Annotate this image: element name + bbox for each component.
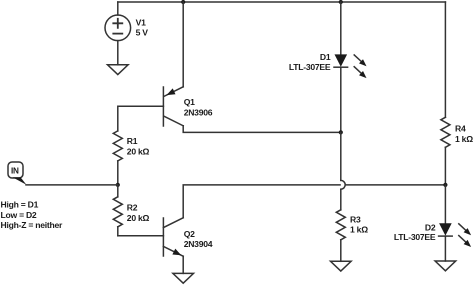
wire node down to D2	[444, 185, 446, 223]
ground below R3	[331, 261, 352, 271]
wire D1 cathode down to Q1 collector node	[340, 67, 342, 132]
wire Q1 collector to D1/R3 column	[183, 126, 341, 133]
wire hop to R3	[340, 189, 342, 210]
voltage source V1	[105, 2, 131, 65]
node junction dot Q1 collector / D1 / R3	[339, 130, 343, 134]
svg-text:D2: D2	[425, 223, 436, 233]
svg-text:Q1: Q1	[184, 97, 195, 107]
svg-text:Low = D2: Low = D2	[1, 210, 37, 220]
svg-text:20 kΩ: 20 kΩ	[127, 147, 150, 157]
ground below V1	[108, 65, 129, 75]
svg-text:High = D1: High = D1	[1, 200, 39, 210]
svg-text:LTL-307EE: LTL-307EE	[289, 62, 331, 72]
ground below D2	[435, 261, 456, 271]
wire Q2 emitter to ground	[182, 256, 184, 273]
resistor R2	[113, 185, 122, 236]
svg-text:Q2: Q2	[184, 229, 195, 239]
wire Q1 emitter to top rail	[182, 2, 184, 87]
svg-text:V1: V1	[136, 18, 146, 28]
svg-text:High-Z = neither: High-Z = neither	[1, 220, 64, 230]
svg-text:R4: R4	[455, 124, 466, 134]
annotation text block	[1, 200, 64, 231]
svg-text:1 kΩ: 1 kΩ	[350, 225, 368, 235]
ground below Q2	[173, 273, 194, 283]
wire top rail from V1 to right corner	[118, 1, 446, 3]
svg-text:R3: R3	[350, 214, 361, 224]
resistor R4	[441, 117, 450, 147]
wire right column down to R4	[444, 2, 446, 117]
wire R3 to ground	[340, 240, 342, 261]
svg-text:2N3904: 2N3904	[184, 239, 213, 249]
svg-text:LTL-307EE: LTL-307EE	[394, 232, 436, 242]
wire R2 to Q2 base	[118, 235, 164, 237]
svg-text:2N3906: 2N3906	[184, 107, 213, 117]
node junction dot top rail to Q1 emitter	[181, 0, 185, 4]
wire D1 from top rail	[340, 2, 342, 54]
svg-text:D1: D1	[320, 52, 331, 62]
wire R4 to node	[444, 147, 446, 185]
resistor R3	[336, 210, 345, 240]
svg-text:R2: R2	[127, 202, 138, 212]
wire down to hop	[340, 132, 342, 180]
wire Q2 collector up and right to R4 node	[183, 185, 445, 218]
LED D1 LTL-307EE	[334, 54, 367, 78]
wire hop over collector wire	[341, 180, 345, 189]
svg-text:20 kΩ: 20 kΩ	[127, 213, 150, 223]
wire Q1 base	[118, 106, 164, 131]
resistor R1	[113, 131, 122, 161]
svg-text:5 V: 5 V	[136, 28, 149, 38]
svg-text:1 kΩ: 1 kΩ	[455, 134, 473, 144]
flag IN input tag	[8, 162, 26, 185]
node junction dot top rail to D1	[339, 0, 343, 4]
wire R1 bottom to IN node	[117, 161, 119, 185]
transistor Q2 2N3904 NPN	[163, 218, 183, 256]
LED D2 LTL-307EE	[439, 223, 472, 247]
svg-text:IN: IN	[11, 167, 19, 176]
wire D2 cathode to ground	[444, 236, 446, 261]
transistor Q1 2N3906 PNP	[163, 87, 183, 126]
svg-text:R1: R1	[127, 136, 138, 146]
node junction dot IN / R1 / R2	[116, 183, 120, 187]
node junction dot R4 / D2 / Q2 collector	[443, 183, 447, 187]
wire IN flag to node	[26, 184, 118, 186]
